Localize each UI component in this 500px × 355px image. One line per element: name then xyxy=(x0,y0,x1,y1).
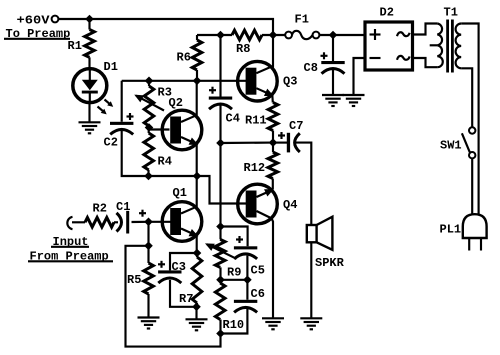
node R10 bottom xyxy=(216,329,225,338)
node R11/R12/C7 xyxy=(269,138,278,147)
node R9 bottom xyxy=(216,276,225,285)
svg-text:C3: C3 xyxy=(172,260,186,274)
transistor Q2 xyxy=(162,110,202,150)
svg-text:D2: D2 xyxy=(380,5,394,19)
node C1/Q1 base xyxy=(144,218,153,227)
node R3 top xyxy=(145,77,154,86)
node R7 bottom xyxy=(192,303,201,312)
ground (D2 minus) xyxy=(343,95,365,106)
svg-text:Q1: Q1 xyxy=(173,186,187,200)
svg-text:C1: C1 xyxy=(116,200,130,214)
resistor R12 xyxy=(268,152,278,179)
transistor Q4 xyxy=(238,184,278,224)
svg-text:C8: C8 xyxy=(304,61,318,75)
fuse F1 xyxy=(285,31,319,39)
capacitor C7 xyxy=(278,132,300,152)
wire Q3 collector xyxy=(272,35,274,68)
svg-text:R5: R5 xyxy=(127,273,141,287)
resistor R10 xyxy=(215,283,225,320)
wire C5-C6 column xyxy=(221,256,248,334)
capacitor C2 xyxy=(110,113,134,134)
node bias row left xyxy=(216,139,225,148)
transistor Q3 xyxy=(238,61,278,101)
svg-text:C2: C2 xyxy=(104,135,118,149)
svg-text:SPKR: SPKR xyxy=(315,256,345,270)
wire C8 column xyxy=(332,35,334,95)
node R5 top xyxy=(144,242,153,251)
svg-text:R6: R6 xyxy=(177,51,191,65)
wire Q2 emitter xyxy=(196,145,198,176)
resistor R1 xyxy=(85,30,95,58)
plug PL1 xyxy=(463,214,487,250)
svg-text:R11: R11 xyxy=(245,113,267,127)
svg-text:C4: C4 xyxy=(226,112,240,126)
wire input row xyxy=(72,221,85,223)
wire R3 stems xyxy=(148,81,150,128)
wire C4 column xyxy=(219,35,221,143)
svg-text:R12: R12 xyxy=(244,161,266,175)
resistor R8 xyxy=(232,30,262,40)
resistor R4 xyxy=(144,133,154,170)
wire C2 column xyxy=(122,81,149,176)
node R4 bottom xyxy=(144,172,153,181)
svg-text:T1: T1 xyxy=(444,5,458,19)
wire D2 minus to ground xyxy=(354,58,366,95)
svg-text:SW1: SW1 xyxy=(440,138,462,152)
node Q1 emitter xyxy=(193,249,202,258)
ground (Q4 collector) xyxy=(262,318,284,329)
wire fuse row xyxy=(197,34,232,36)
wire R4 row xyxy=(149,175,198,177)
resistor R2 xyxy=(85,218,114,228)
wire R1 stems xyxy=(88,19,90,69)
svg-text:+60V: +60V xyxy=(17,14,51,28)
transistor Q1 xyxy=(162,202,202,242)
node R6/Q2 collector xyxy=(193,77,202,86)
wire Q2 collector xyxy=(196,81,198,116)
svg-text:C7: C7 xyxy=(289,119,303,133)
node Q3 collector/fuse xyxy=(269,31,278,40)
potentiometer wiper R3 xyxy=(136,96,164,111)
svg-text:Q4: Q4 xyxy=(283,198,297,212)
node R3/R4 wiper xyxy=(145,123,154,132)
wire C3 links xyxy=(170,253,197,307)
ground (SPKR) xyxy=(300,318,322,329)
svg-text:D1: D1 xyxy=(104,60,118,74)
transformer T1 xyxy=(413,20,479,215)
bridge rectifier D2 xyxy=(365,22,413,70)
node C5/C6 xyxy=(243,276,252,285)
svg-text:R7: R7 xyxy=(179,292,193,306)
svg-text:R10: R10 xyxy=(223,318,245,332)
svg-text:C6: C6 xyxy=(251,287,265,301)
svg-text:R9: R9 xyxy=(227,265,241,279)
capacitor C5 xyxy=(234,236,257,259)
speaker SPKR xyxy=(307,217,333,250)
wire R7 stems xyxy=(195,253,198,319)
ground (D1) xyxy=(79,122,101,133)
resistor R9 (pot) xyxy=(215,239,225,267)
ground (C8) xyxy=(322,95,344,106)
capacitor C6 xyxy=(234,300,257,313)
node Q1 collector/Q2 emitter xyxy=(193,172,202,181)
wire R6 column xyxy=(196,35,198,81)
resistor R3 (pot) xyxy=(144,86,154,126)
wire C1 to R5 node xyxy=(147,222,149,246)
resistor R5 xyxy=(144,263,154,294)
svg-text:F1: F1 xyxy=(295,12,309,26)
wire bias row xyxy=(221,142,274,145)
svg-text:C5: C5 xyxy=(251,263,265,277)
node C4 top xyxy=(216,31,225,40)
node +60V/R1 xyxy=(85,15,94,24)
resistor R11 xyxy=(268,103,278,131)
potentiometer wiper R9 xyxy=(207,244,237,259)
svg-text:R8: R8 xyxy=(236,42,250,56)
node C8/D2 xyxy=(329,31,338,40)
capacitor C4 xyxy=(209,87,232,109)
resistor R7 xyxy=(192,257,202,303)
wire speaker feed xyxy=(294,143,311,225)
wire Q1 emitter xyxy=(196,236,198,253)
wire Q1/Q2 node to Q4 base xyxy=(197,176,248,204)
ground (R7) xyxy=(186,319,208,330)
wire +60V rail xyxy=(58,19,273,35)
svg-text:Q3: Q3 xyxy=(283,74,297,88)
capacitor C8 xyxy=(321,52,345,73)
capacitor C1 xyxy=(117,210,147,234)
svg-text:R2: R2 xyxy=(93,201,107,215)
svg-text:Q2: Q2 xyxy=(169,96,183,110)
node C5 top xyxy=(216,222,225,231)
svg-text:R1: R1 xyxy=(68,39,82,53)
svg-text:PL1: PL1 xyxy=(440,222,462,236)
wire R12 stems xyxy=(272,143,274,190)
capacitor C3 xyxy=(158,261,182,283)
wire C7 row xyxy=(273,142,287,144)
wire C5 top link xyxy=(221,227,248,247)
terminal +60V xyxy=(52,16,59,23)
wire Q3 base row xyxy=(122,80,248,82)
wire bias column xyxy=(219,143,221,334)
input terminal xyxy=(67,217,72,229)
wire R11 stem xyxy=(272,131,274,143)
diode D1 (LED) xyxy=(73,69,113,123)
wire R9-C5 row xyxy=(221,279,248,281)
wire Q3 emitter to R11 xyxy=(271,96,274,103)
wire Q2 base xyxy=(149,128,170,130)
wire feedback rail xyxy=(126,246,221,347)
wire R5 stems xyxy=(147,246,149,318)
svg-text:R4: R4 xyxy=(158,154,172,168)
wire Q1 collector xyxy=(196,176,198,208)
switch SW1 xyxy=(462,127,476,214)
wire Q4 collector xyxy=(272,218,273,318)
ground (R5) xyxy=(138,318,160,329)
resistor R6 xyxy=(192,40,202,70)
